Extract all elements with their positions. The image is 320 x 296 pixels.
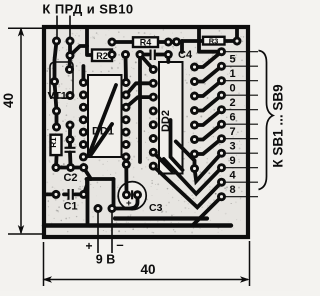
svg-text:+: + — [85, 239, 92, 253]
svg-text:C3: C3 — [149, 202, 163, 214]
svg-text:C2: C2 — [63, 172, 77, 184]
svg-text:DD2: DD2 — [160, 110, 172, 132]
svg-text:R3: R3 — [209, 37, 219, 46]
svg-text:+: + — [126, 198, 132, 209]
svg-text:3: 3 — [230, 141, 236, 153]
svg-text:40: 40 — [140, 262, 155, 277]
svg-text:9: 9 — [230, 155, 236, 167]
svg-text:R4: R4 — [140, 38, 152, 48]
svg-text:2: 2 — [230, 97, 236, 109]
svg-text:40: 40 — [1, 93, 16, 108]
svg-text:4: 4 — [230, 170, 237, 182]
svg-text:К SB1 ... SB9: К SB1 ... SB9 — [271, 84, 286, 167]
svg-text:0: 0 — [230, 83, 236, 95]
svg-text:8: 8 — [230, 184, 236, 196]
svg-text:DD1: DD1 — [92, 126, 114, 138]
svg-text:C1: C1 — [63, 201, 77, 213]
svg-text:9 В: 9 В — [96, 253, 115, 267]
svg-text:7: 7 — [230, 126, 236, 138]
svg-text:–: – — [116, 237, 123, 252]
svg-text:C4: C4 — [178, 49, 193, 61]
svg-text:5: 5 — [230, 54, 236, 66]
svg-text:1: 1 — [230, 68, 236, 80]
svg-text:R2: R2 — [96, 51, 108, 61]
svg-text:VT1: VT1 — [48, 90, 67, 102]
svg-text:R1: R1 — [49, 137, 58, 148]
svg-text:К ПРД и SB10: К ПРД и SB10 — [42, 2, 133, 17]
svg-text:6: 6 — [230, 112, 236, 124]
